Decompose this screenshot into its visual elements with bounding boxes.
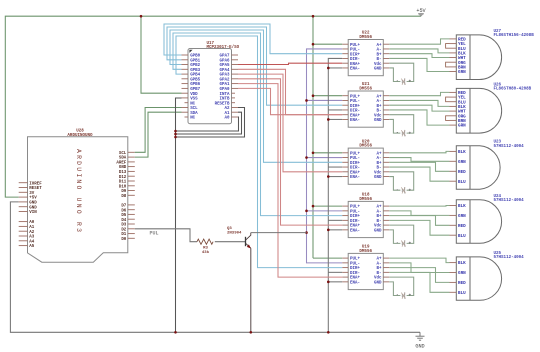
svg-text:A+: A+ [377, 258, 382, 262]
wire DIR-/ENA- ground bus vertical [328, 58, 342, 332]
wire U20 A+ to U23 [389, 151, 449, 152]
wire PUL+ branch U20 [313, 152, 342, 154]
wire U20 GND to battery - [389, 177, 400, 191]
svg-text:ENA+: ENA+ [350, 277, 360, 281]
svg-text:PUL: PUL [149, 230, 158, 236]
svg-text:D13: D13 [119, 171, 127, 175]
svg-text:GND: GND [29, 206, 37, 210]
wire SDA Arduino to U17 [135, 112, 182, 157]
wire A0 under chip [176, 117, 239, 131]
wire U26 YEL-BLU loop [446, 97, 450, 102]
svg-text:A2: A2 [225, 107, 230, 111]
svg-text:RED: RED [458, 170, 466, 175]
svg-text:A+: A+ [377, 206, 382, 210]
junction +5V bus [312, 15, 315, 18]
svg-text:B+: B+ [377, 267, 382, 271]
svg-text:GPA1: GPA1 [220, 83, 230, 87]
wire U19 B+ to U25 [389, 268, 449, 283]
svg-text:FL86STH156-4208B: FL86STH156-4208B [494, 34, 535, 38]
svg-text:3V: 3V [29, 192, 34, 196]
wire VSS to ground [176, 98, 182, 332]
motor U25 pins [450, 261, 467, 296]
battery BT4 36V [396, 240, 411, 247]
svg-text:INTA: INTA [220, 93, 230, 97]
driver U21 DM556 body [348, 83, 383, 127]
svg-text:Vdc: Vdc [374, 224, 382, 229]
motor U24 pins [450, 204, 467, 239]
wire U22 GND to battery - [389, 68, 400, 82]
svg-text:ENA-: ENA- [350, 229, 360, 233]
wire GPB1 to U21 DIR+ [167, 27, 342, 105]
svg-text:GPB5: GPB5 [190, 78, 200, 82]
svg-text:A2: A2 [29, 231, 34, 235]
driver U20 right pins A B Vdc GND [374, 152, 389, 180]
svg-text:GND: GND [374, 281, 382, 285]
svg-text:DIR-: DIR- [350, 110, 360, 114]
wire U20 A- to U23 [389, 158, 449, 162]
wire U18 GND to battery - [389, 230, 400, 244]
+5V symbol [416, 8, 426, 16]
motor U23 pins [450, 150, 467, 185]
wire GPB3 to U18 DIR+ [173, 33, 342, 216]
wire GPA4 to U21 ENA+ [238, 69, 342, 114]
svg-text:57HS112-4004: 57HS112-4004 [494, 145, 525, 149]
svg-text:B-: B- [377, 272, 382, 276]
svg-text:PUL-: PUL- [350, 49, 360, 53]
svg-text:GPB6: GPB6 [190, 83, 200, 87]
junction GND rail [174, 331, 177, 334]
wire GPB2 to U20 DIR+ [170, 30, 342, 162]
wire U19 A- to U25 [389, 263, 449, 273]
junction ENA- U19 [327, 281, 330, 284]
svg-text:BLU: BLU [458, 291, 466, 296]
wire GPA2 to U18 ENA+ [238, 79, 342, 225]
svg-text:DM556: DM556 [359, 36, 372, 40]
svg-text:PUL+: PUL+ [350, 44, 360, 48]
svg-text:ENA-: ENA- [350, 281, 360, 285]
junction ENA- U20 [327, 175, 330, 178]
U17 left pins GPB0-GPB7 VDD VSS NC SCL SDA NC [182, 55, 201, 121]
wire ENA- branch U18 [328, 229, 342, 231]
svg-text:GPA5: GPA5 [220, 64, 230, 68]
svg-text:PUL-: PUL- [350, 210, 360, 214]
svg-text:SDA: SDA [119, 157, 127, 161]
wire GPA1 to U19 ENA+ [238, 84, 342, 278]
svg-text:+5V: +5V [416, 8, 426, 14]
svg-text:A4: A4 [29, 240, 34, 244]
junction ENA- U18 [327, 229, 330, 232]
svg-text:GPA2: GPA2 [220, 78, 230, 82]
svg-text:DM556: DM556 [359, 198, 372, 202]
svg-text:B+: B+ [377, 105, 382, 109]
wire PUL+ +5V bus vertical [312, 16, 314, 258]
svg-text:A1: A1 [29, 226, 34, 230]
junction PUL- U20 [305, 156, 308, 159]
wire ENA- branch U21 [328, 118, 342, 120]
wire U19 GND to battery - [389, 282, 400, 296]
svg-text:D7: D7 [121, 204, 126, 208]
svg-text:ENA-: ENA- [350, 176, 360, 180]
wire U22 B- to U27 [389, 58, 449, 71]
svg-text:D11: D11 [119, 181, 127, 185]
wire Q3 collector to PUL- bus [251, 232, 307, 234]
wire U19 A+ to U25 [389, 258, 449, 263]
svg-text:PUL+: PUL+ [350, 95, 360, 99]
svg-text:-: - [396, 293, 399, 298]
svg-text:GRN: GRN [458, 124, 466, 129]
svg-text:GND: GND [374, 119, 382, 123]
wire U18 B+ to U24 [389, 216, 449, 226]
wire U21 A+ to U26 [389, 92, 449, 95]
svg-text:NC: NC [190, 102, 195, 106]
svg-text:DM556: DM556 [359, 145, 372, 149]
svg-text:AREF: AREF [116, 161, 126, 165]
svg-text:A-: A- [377, 157, 382, 161]
wire U19 Vdc to battery + [389, 277, 413, 295]
svg-text:GRN: GRN [458, 271, 466, 276]
wire U22 Vdc to battery + [389, 63, 413, 81]
svg-text:GND: GND [415, 344, 424, 350]
wire DIR- branch U19 [328, 271, 342, 273]
svg-text:Vdc: Vdc [374, 113, 382, 118]
wire DIR- branch U18 [328, 219, 342, 221]
svg-text:B+: B+ [377, 162, 382, 166]
arduino U28 left pins [19, 182, 43, 249]
svg-text:+: + [408, 80, 411, 85]
svg-text:A3: A3 [29, 236, 34, 240]
wire Q3 emitter to GND rail [250, 248, 252, 332]
svg-text:A+: A+ [377, 44, 382, 48]
svg-text:GPB2: GPB2 [190, 64, 200, 68]
svg-text:D2: D2 [121, 228, 126, 232]
svg-text:DIR-: DIR- [350, 272, 360, 276]
svg-text:D4: D4 [121, 219, 126, 223]
motor U23 57HS112-4004 body [456, 141, 524, 190]
svg-text:DIR-: DIR- [350, 167, 360, 171]
battery BT5 36V [396, 292, 411, 299]
svg-text:-: - [396, 241, 399, 246]
wire U21 Vdc to battery + [389, 115, 413, 133]
op-amp U17 MCP23017-E/SO body [188, 42, 240, 124]
transistor Q3 2N3904 [227, 227, 251, 248]
svg-text:+: + [408, 188, 411, 193]
wire U21 GND to battery - [389, 119, 400, 133]
wire GPA3 to U20 ENA+ [238, 74, 342, 172]
svg-text:RESETB: RESETB [215, 102, 230, 106]
junction PUL- U21 [305, 99, 308, 102]
svg-text:ENA+: ENA+ [350, 225, 360, 229]
svg-text:ARDUINO UNO R3: ARDUINO UNO R3 [75, 149, 82, 234]
svg-text:A-: A- [377, 49, 382, 53]
svg-text:VDD: VDD [190, 93, 198, 97]
junction PUL- Q3 collector [305, 231, 308, 234]
svg-text:VSS: VSS [190, 97, 198, 101]
junction VSS A-pins [174, 130, 177, 133]
svg-text:B-: B- [377, 58, 382, 62]
junction PUL+ U20 [312, 152, 315, 155]
svg-text:D12: D12 [119, 176, 127, 180]
svg-text:D0: D0 [121, 238, 126, 242]
svg-text:INTB: INTB [220, 97, 230, 101]
driver U21 right pins A B Vdc GND [374, 95, 389, 123]
svg-text:GPB0: GPB0 [190, 55, 200, 59]
svg-text:D1: D1 [121, 233, 126, 237]
wire U21 A- to U26 [389, 100, 449, 106]
driver U19 right pins A B Vdc GND [374, 258, 389, 286]
svg-text:MCP23017-E/SO: MCP23017-E/SO [207, 45, 240, 50]
svg-text:ENA-: ENA- [350, 119, 360, 123]
svg-text:B+: B+ [377, 215, 382, 219]
svg-text:GRN: GRN [458, 70, 466, 75]
svg-text:VIN: VIN [29, 211, 37, 215]
svg-text:D10: D10 [119, 185, 127, 189]
svg-text:A+: A+ [377, 95, 382, 99]
svg-text:IOREF: IOREF [29, 182, 42, 186]
resistor R3 43k [197, 239, 213, 255]
svg-text:RESET: RESET [29, 187, 42, 191]
svg-text:+5V: +5V [29, 197, 37, 201]
wire U22 A+ to U27 [389, 39, 449, 44]
wire +5V rail (top and left side) [5, 16, 421, 197]
wire DIR- branch U21 [328, 109, 342, 111]
svg-text:PUL+: PUL+ [350, 206, 360, 210]
wire U26 ORG-BRN loop [446, 116, 450, 121]
svg-text:GPB3: GPB3 [190, 69, 200, 73]
wire SCL Arduino to U17 [135, 108, 182, 153]
wire U18 Vdc to battery + [389, 225, 413, 243]
wire A2 under chip [176, 108, 245, 138]
svg-text:Vdc: Vdc [374, 62, 382, 67]
wire A1 under chip [176, 112, 242, 134]
svg-text:A5: A5 [29, 245, 34, 249]
svg-text:DIR-: DIR- [350, 58, 360, 62]
svg-text:+: + [408, 294, 411, 299]
svg-text:DIR+: DIR+ [350, 162, 360, 166]
motor U24 57HS112-4004 body [456, 195, 524, 243]
driver U22 DM556 body [348, 32, 383, 76]
svg-text:GND: GND [374, 68, 382, 72]
svg-text:ENA+: ENA+ [350, 171, 360, 175]
wire U22 A- to U27 [389, 49, 449, 53]
svg-text:GPA4: GPA4 [220, 69, 230, 73]
svg-text:ENA+: ENA+ [350, 63, 360, 67]
svg-text:RED: RED [458, 224, 466, 229]
wire U27 YEL-BLU loop [446, 44, 450, 49]
wire PUL+ branch U22 [313, 43, 342, 45]
svg-text:A0: A0 [225, 117, 230, 121]
wire U21 B- to U26 [389, 110, 449, 125]
svg-text:B+: B+ [377, 53, 382, 57]
junction PUL+ U18 [312, 205, 315, 208]
svg-text:BLK: BLK [458, 204, 466, 209]
svg-text:SDA: SDA [190, 112, 198, 116]
ground GND symbol [415, 332, 424, 349]
motor U25 57HS112-4004 body [456, 252, 524, 300]
wire PUL- bus from Q3 collector [307, 49, 343, 263]
svg-text:PUL-: PUL- [350, 262, 360, 266]
wire PUL+ branch U21 [313, 95, 342, 97]
wire U21 B+ to U26 [389, 105, 449, 111]
driver U18 right pins A B Vdc GND [374, 206, 389, 234]
svg-text:57HS112-4004: 57HS112-4004 [494, 256, 525, 260]
driver U18 left pins PUL DIR ENA [342, 206, 360, 234]
svg-text:DIR+: DIR+ [350, 53, 360, 57]
svg-text:A-: A- [377, 210, 382, 214]
wire PUL- branch U18 [307, 210, 343, 212]
wire ENA- branch U19 [328, 281, 342, 283]
battery BT1 36V [396, 78, 411, 85]
motor U26 pins [450, 91, 467, 129]
arduino U28 right pins [116, 152, 134, 242]
junction PUL+ U21 [312, 94, 315, 97]
wire GPA0 to U21 ENA+ [238, 88, 342, 114]
svg-text:FL86STH80-4208B: FL86STH80-4208B [494, 88, 532, 92]
wire GPB4 to U19 DIR+ [176, 36, 342, 268]
svg-text:B-: B- [377, 167, 382, 171]
driver U22 right pins A B Vdc GND [374, 44, 389, 72]
svg-text:DIR+: DIR+ [350, 105, 360, 109]
svg-text:B-: B- [377, 220, 382, 224]
svg-text:Vdc: Vdc [374, 170, 382, 175]
battery BT2 36V [396, 130, 411, 137]
svg-text:PUL+: PUL+ [350, 152, 360, 156]
motor U26 FL86STH80-4208B body [456, 83, 531, 133]
svg-text:PUL+: PUL+ [350, 258, 360, 262]
svg-text:GPA0: GPA0 [220, 88, 230, 92]
svg-text:GND: GND [29, 201, 37, 205]
svg-text:-: - [396, 79, 399, 84]
svg-text:BLK: BLK [458, 261, 466, 266]
svg-text:2N3904: 2N3904 [227, 232, 242, 236]
U17 right pins GPA7-GPA0 INTA INTB RESETB A2 A1 A0 [215, 55, 238, 121]
svg-text:D5: D5 [121, 214, 126, 218]
motor U27 pins [450, 38, 467, 76]
svg-text:GPB7: GPB7 [190, 88, 200, 92]
junction ground bus to GND rail [327, 331, 330, 334]
wire U22 B+ to U27 [389, 54, 449, 58]
wire PUL from Arduino D2 [135, 229, 197, 242]
svg-text:SCL: SCL [119, 152, 127, 156]
svg-text:A-: A- [377, 100, 382, 104]
svg-text:GRN: GRN [458, 160, 466, 165]
svg-text:DIR+: DIR+ [350, 215, 360, 219]
svg-text:A+: A+ [377, 152, 382, 156]
svg-text:RED: RED [458, 281, 466, 286]
svg-text:DIR-: DIR- [350, 220, 360, 224]
svg-text:43k: 43k [202, 250, 210, 255]
driver U18 DM556 body [348, 194, 383, 238]
svg-text:GPA7: GPA7 [220, 55, 230, 59]
wire U18 A- to U24 [389, 211, 449, 216]
wire DIR- branch U20 [328, 166, 342, 168]
wire U18 A+ to U24 [389, 205, 449, 208]
wire GPA5 to U22 ENA+ [238, 63, 342, 64]
svg-text:D8: D8 [121, 195, 126, 199]
svg-text:ARDUINOUNO: ARDUINOUNO [67, 134, 93, 138]
wire PUL+ branch U18 [313, 205, 342, 207]
junction +5V VDD [140, 15, 143, 18]
svg-text:D6: D6 [121, 209, 126, 213]
svg-text:PUL-: PUL- [350, 100, 360, 104]
wire U19 B- to U25 [389, 272, 449, 292]
svg-text:GPB4: GPB4 [190, 74, 200, 78]
svg-text:DM556: DM556 [359, 250, 372, 254]
svg-text:GPA3: GPA3 [220, 74, 230, 78]
svg-text:SCL: SCL [190, 107, 198, 111]
wire ENA- branch U20 [328, 176, 342, 178]
svg-text:DM556: DM556 [359, 87, 372, 91]
svg-text:Vdc: Vdc [374, 276, 382, 281]
svg-text:Q3: Q3 [227, 227, 232, 231]
svg-text:D9: D9 [121, 190, 126, 194]
svg-text:57HS112-4004: 57HS112-4004 [494, 199, 525, 203]
svg-text:B-: B- [377, 110, 382, 114]
wire U20 B+ to U23 [389, 162, 449, 171]
wire U27 ORG-BRN loop [446, 62, 450, 67]
svg-text:BLK: BLK [458, 150, 466, 155]
wire U18 B- to U24 [389, 220, 449, 235]
driver U19 left pins PUL DIR ENA [342, 258, 360, 286]
svg-text:GND: GND [374, 176, 382, 180]
svg-text:PUL-: PUL- [350, 157, 360, 161]
svg-text:ENA-: ENA- [350, 68, 360, 72]
svg-text:+: + [408, 242, 411, 247]
svg-text:GND: GND [119, 166, 127, 170]
driver U19 DM556 body [348, 246, 383, 290]
wire VDD +5V drop [141, 16, 182, 93]
wire U20 Vdc to battery + [389, 172, 413, 190]
wire U20 B- to U23 [389, 167, 449, 181]
svg-text:NC: NC [190, 117, 195, 121]
driver U20 DM556 body [348, 140, 383, 184]
wire R3 to Q3 base [215, 241, 246, 243]
driver U20 left pins PUL DIR ENA [342, 152, 360, 180]
wire GPB0 to U22 DIR+ [164, 24, 342, 55]
motor U27 FL86STH156-4208B body [456, 30, 534, 80]
wire GND rail (left side and bottom) [10, 202, 420, 332]
junction ENA- U21 [327, 118, 330, 121]
svg-text:GPB1: GPB1 [190, 59, 200, 63]
driver U22 left pins PUL DIR ENA [342, 44, 360, 72]
svg-text:GRN: GRN [458, 214, 466, 219]
svg-text:ENA+: ENA+ [350, 114, 360, 118]
svg-text:A1: A1 [225, 112, 230, 116]
svg-text:GPA6: GPA6 [220, 59, 230, 63]
svg-text:-: - [396, 131, 399, 136]
svg-text:D3: D3 [121, 224, 126, 228]
svg-text:-: - [396, 188, 399, 193]
wire ENA- branch U22 [328, 67, 342, 69]
wire PUL- branch U20 [307, 157, 343, 159]
wire PUL+ branch U19 [313, 257, 342, 259]
svg-text:A-: A- [377, 262, 382, 266]
battery BT3 36V [396, 187, 411, 194]
svg-text:BLU: BLU [458, 180, 466, 185]
svg-text:+: + [408, 131, 411, 136]
arduino U28 ARDUINOUNO body [28, 130, 128, 263]
junction PUL+ U22 [312, 43, 315, 46]
wire PUL- branch U21 [307, 99, 343, 101]
svg-text:DIR+: DIR+ [350, 267, 360, 271]
driver U21 left pins PUL DIR ENA [342, 95, 360, 123]
svg-text:A0: A0 [29, 221, 34, 225]
junction PUL- U18 [305, 210, 308, 213]
svg-text:GND: GND [374, 229, 382, 233]
svg-text:BLU: BLU [458, 234, 466, 239]
